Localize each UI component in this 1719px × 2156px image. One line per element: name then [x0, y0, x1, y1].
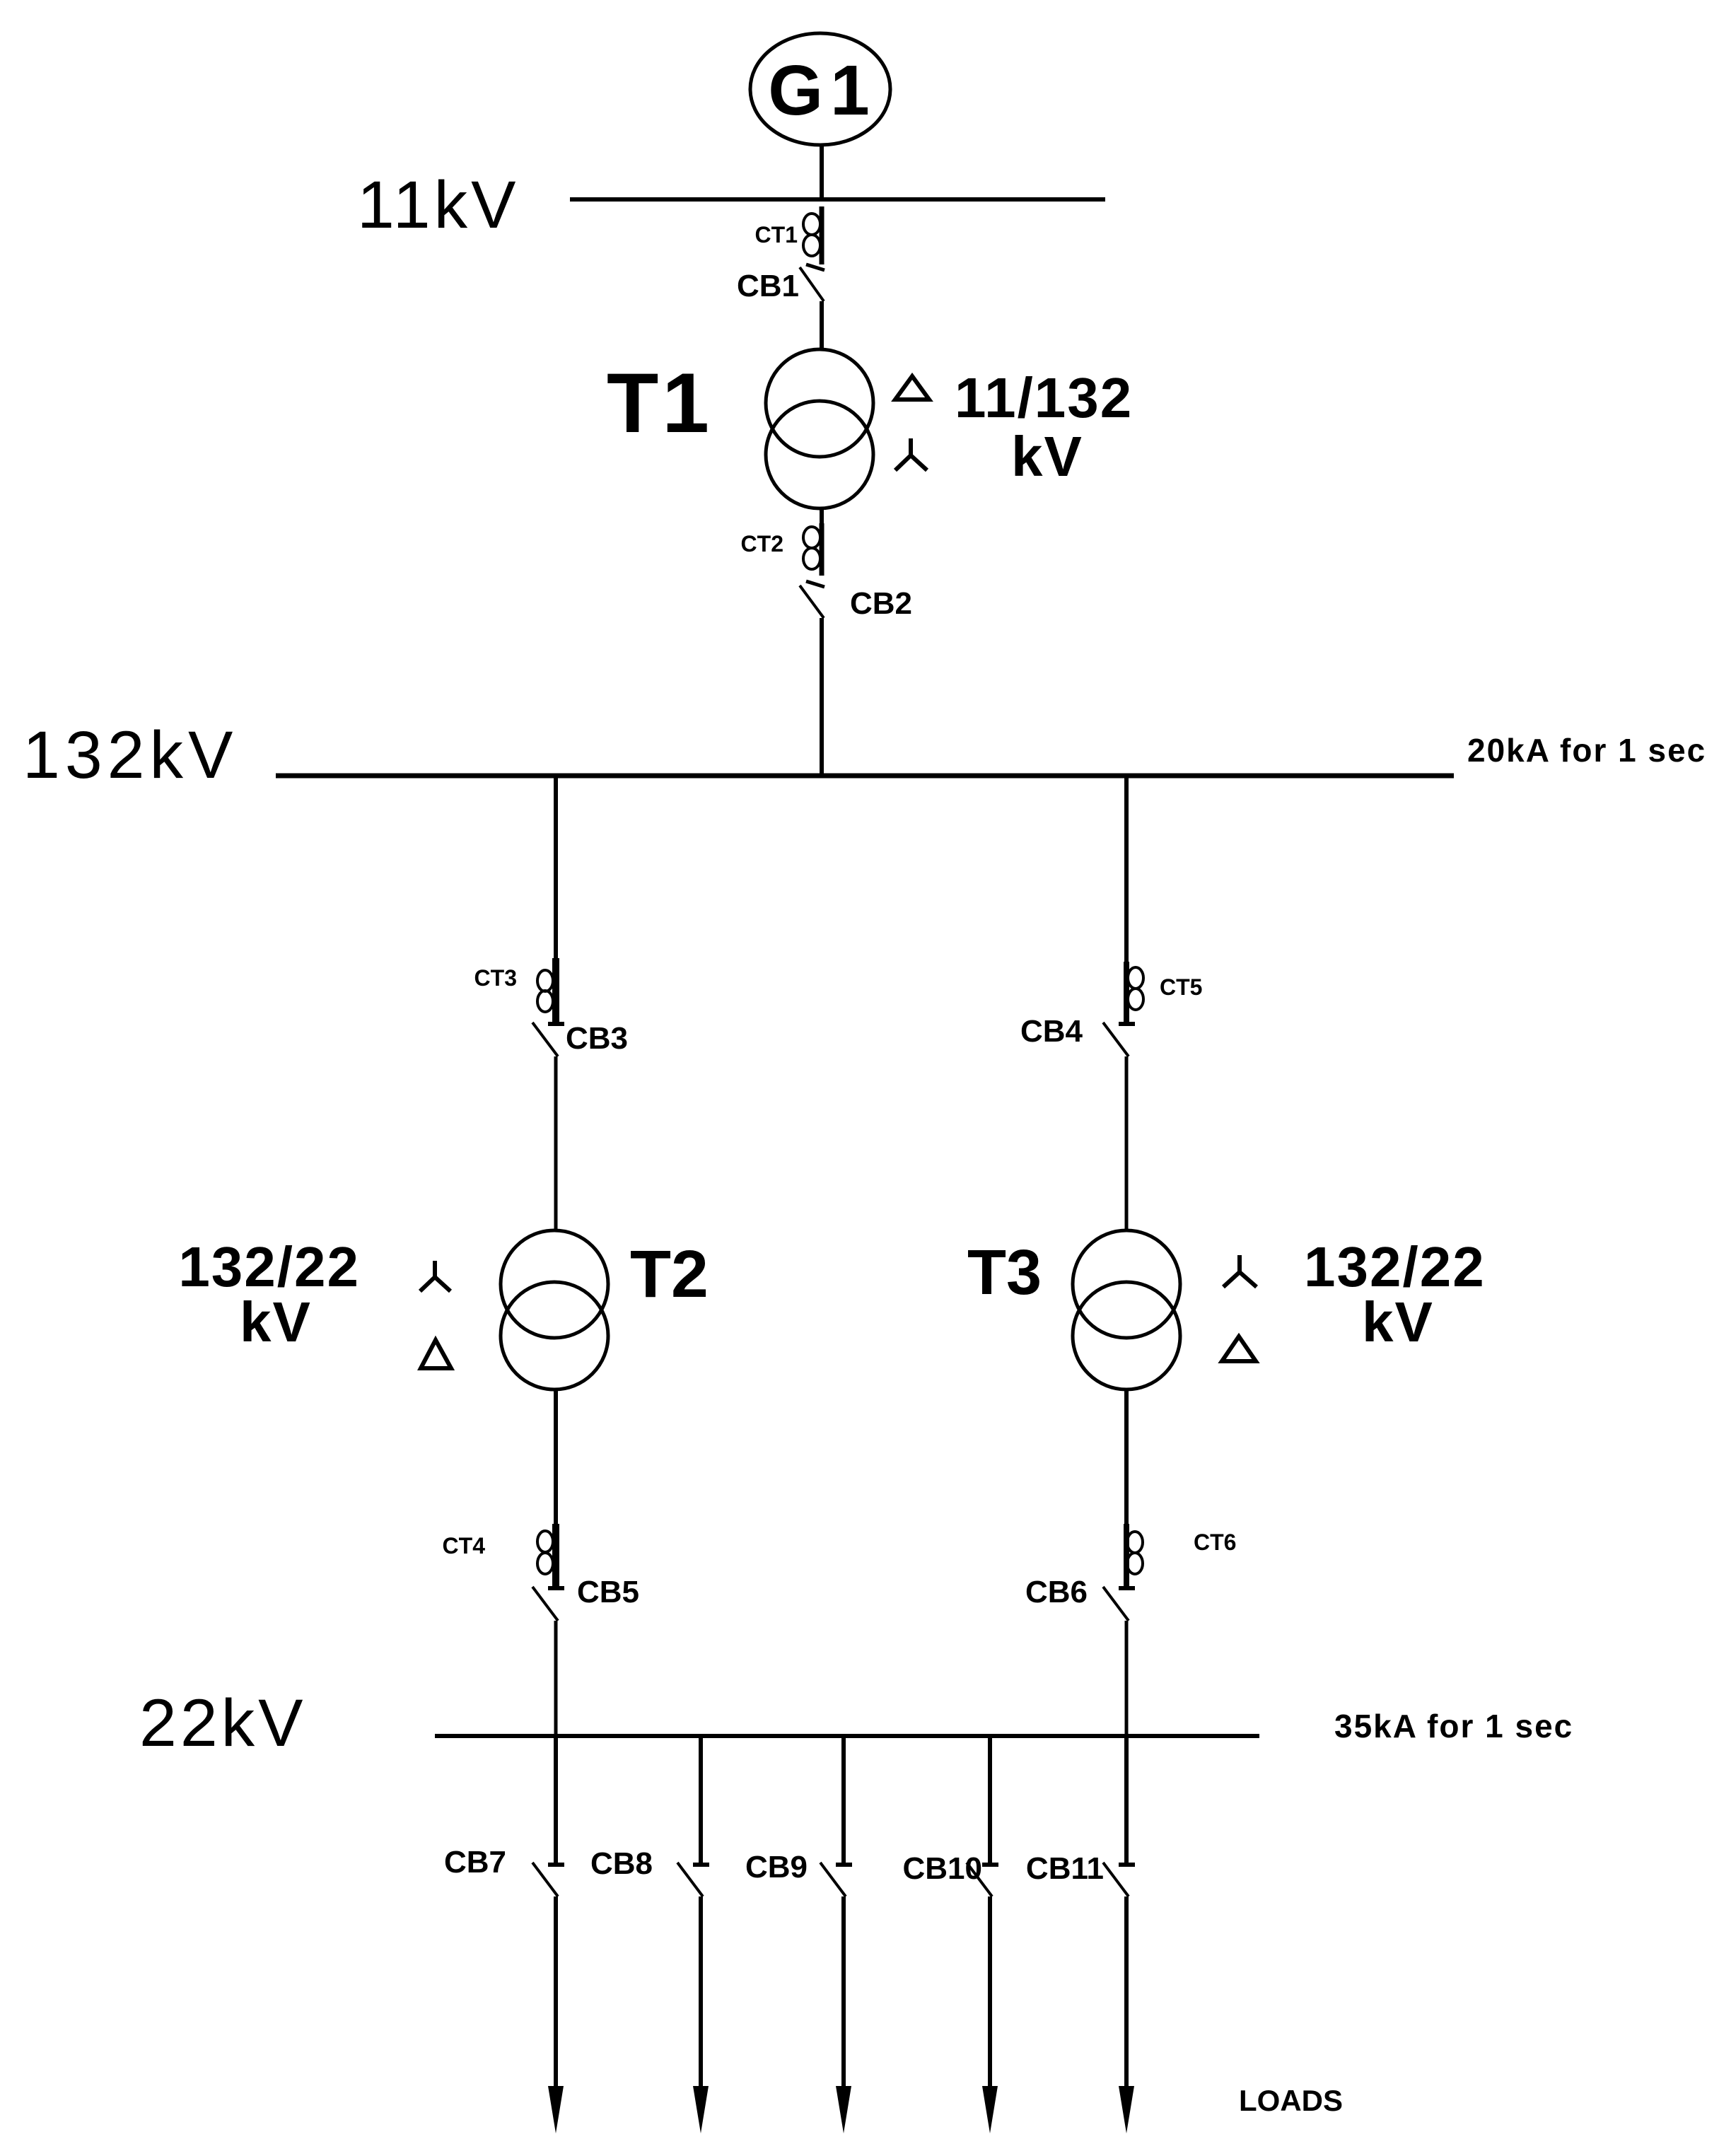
- svg-text:11/132: 11/132: [955, 366, 1133, 429]
- feeder 4 load arrow: [982, 2086, 998, 2133]
- CT4: [443, 1524, 556, 1590]
- wire 132kV bus to CT3 (left branch): [554, 776, 558, 962]
- circuit breaker CB2: [800, 581, 912, 621]
- circuit breaker CB1: [737, 264, 824, 303]
- svg-text:22kV: 22kV: [139, 1686, 307, 1761]
- CT3: [474, 958, 556, 1026]
- svg-text:132/22: 132/22: [1304, 1235, 1486, 1298]
- feeder 4 wire to load: [988, 1896, 992, 2093]
- transformer T3: [1073, 1230, 1180, 1389]
- svg-text:20kA for 1 sec: 20kA for 1 sec: [1467, 732, 1706, 769]
- label 132/22 kV (right): [1304, 1235, 1486, 1353]
- transformer T1: [766, 349, 873, 508]
- feeder 1 load arrow: [548, 2086, 564, 2133]
- CT2: [741, 523, 822, 576]
- wye symbol T3: [1223, 1255, 1257, 1287]
- CT5: [1126, 962, 1202, 1026]
- circuit breaker CB3: [532, 1021, 628, 1056]
- wire G1 to 11kV bus: [820, 145, 824, 200]
- svg-text:CB6: CB6: [1025, 1575, 1088, 1609]
- 132kV busbar: [276, 774, 1454, 779]
- feeder 4: wire below bus: [988, 1736, 992, 1865]
- svg-text:CT4: CT4: [443, 1533, 486, 1558]
- svg-text:T1: T1: [607, 356, 713, 450]
- svg-text:11kV: 11kV: [357, 168, 519, 243]
- circuit breaker CB11: [1026, 1851, 1135, 1896]
- wire 132kV bus to CT5 (right branch): [1124, 776, 1129, 965]
- svg-text:CT2: CT2: [741, 531, 783, 557]
- transformer T2: [501, 1230, 608, 1389]
- svg-text:G1: G1: [768, 51, 876, 130]
- 11kV busbar: [570, 197, 1105, 202]
- svg-text:CB2: CB2: [850, 586, 912, 621]
- feeder 2 load arrow: [693, 2086, 709, 2133]
- wire CB2 to 132kV bus: [820, 618, 824, 776]
- wire T3 to CT6: [1124, 1389, 1129, 1531]
- wire CB5 to 22kV bus: [554, 1621, 558, 1736]
- svg-text:CT5: CT5: [1160, 974, 1202, 1000]
- svg-text:CT1: CT1: [755, 222, 798, 247]
- svg-text:T3: T3: [967, 1237, 1042, 1308]
- svg-text:LOADS: LOADS: [1239, 2084, 1343, 2117]
- generator G1: [750, 33, 890, 145]
- svg-text:kV: kV: [1362, 1290, 1434, 1353]
- svg-text:CB1: CB1: [737, 269, 799, 303]
- svg-text:CT6: CT6: [1194, 1529, 1236, 1555]
- svg-text:132kV: 132kV: [23, 718, 238, 793]
- svg-text:CB7: CB7: [444, 1845, 506, 1880]
- circuit breaker CB6: [1025, 1575, 1135, 1621]
- svg-text:CB10: CB10: [903, 1851, 983, 1886]
- label 132/22 kV (left): [178, 1235, 360, 1353]
- svg-text:kV: kV: [240, 1290, 312, 1353]
- label 11/132 kV: [955, 366, 1133, 488]
- wire CB6 to 22kV bus: [1125, 1621, 1129, 1736]
- svg-text:kV: kV: [1011, 425, 1083, 488]
- CT1: [755, 206, 822, 264]
- svg-text:CT3: CT3: [474, 965, 517, 991]
- feeder 3 wire to load: [841, 1896, 846, 2093]
- feeder 5 wire to load: [1124, 1896, 1129, 2093]
- svg-text:132/22: 132/22: [178, 1235, 360, 1298]
- circuit breaker CB4: [1020, 1014, 1135, 1056]
- 22kV busbar: [435, 1734, 1259, 1738]
- svg-text:CB9: CB9: [745, 1850, 808, 1884]
- wire CB4 to T3: [1125, 1056, 1129, 1232]
- circuit breaker CB7: [444, 1845, 564, 1896]
- feeder 5: wire below bus: [1124, 1736, 1129, 1865]
- CT6: [1126, 1524, 1236, 1590]
- wye symbol T1: [895, 438, 927, 470]
- circuit breaker CB8: [590, 1846, 709, 1896]
- feeder 1 wire to load: [554, 1896, 558, 2093]
- delta symbol T2: [421, 1340, 451, 1368]
- svg-text:CB3: CB3: [566, 1021, 628, 1056]
- circuit breaker CB5: [532, 1575, 639, 1621]
- circuit breaker CB9: [745, 1850, 852, 1896]
- delta symbol T1: [895, 376, 929, 400]
- feeder 2: wire below bus: [699, 1736, 703, 1865]
- wye symbol T2: [420, 1261, 450, 1291]
- svg-text:CB4: CB4: [1020, 1014, 1083, 1049]
- svg-text:CB5: CB5: [577, 1575, 639, 1609]
- feeder 2 wire to load: [699, 1896, 703, 2093]
- feeder 5 load arrow: [1119, 2086, 1134, 2133]
- svg-text:T2: T2: [630, 1237, 709, 1312]
- wire CB1 to T1: [820, 301, 824, 351]
- svg-text:CB11: CB11: [1026, 1851, 1104, 1886]
- svg-text:CB8: CB8: [590, 1846, 653, 1881]
- circuit breaker CB10: [903, 1851, 999, 1896]
- feeder 1: wire below bus: [554, 1736, 558, 1865]
- feeder 3 load arrow: [836, 2086, 851, 2133]
- delta symbol T3: [1222, 1336, 1256, 1361]
- wire CB3 to T2: [554, 1056, 558, 1232]
- wire T2 to CT4: [554, 1389, 558, 1531]
- wire T1 to CT2: [820, 508, 824, 527]
- feeder 3: wire below bus: [841, 1736, 846, 1865]
- svg-text:35kA for 1 sec: 35kA for 1 sec: [1334, 1708, 1573, 1744]
